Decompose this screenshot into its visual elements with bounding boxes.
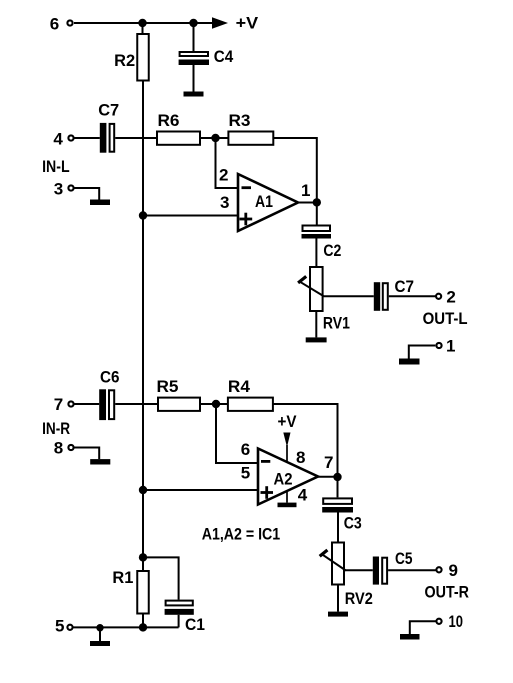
wire C5 to pin9 — [388, 569, 436, 571]
svg-text:OUT-R: OUT-R — [425, 583, 470, 602]
capacitor C6 — [99, 368, 119, 420]
+V supply arrow A2 pin 8 — [278, 412, 298, 462]
wire pin3 to ground — [75, 188, 100, 200]
capacitor C1 — [165, 601, 205, 634]
wire C1 to bottom row — [178, 615, 180, 628]
svg-text:C3: C3 — [344, 514, 362, 533]
svg-text:IN-L: IN-L — [42, 157, 70, 176]
pin 4 ground stub A2 — [286, 492, 288, 503]
svg-text:OUT-L: OUT-L — [423, 309, 468, 328]
svg-text:C6: C6 — [100, 368, 120, 387]
svg-text:2: 2 — [219, 166, 228, 185]
svg-text:A1,A2 = IC1: A1,A2 = IC1 — [202, 525, 281, 544]
wire R1 to bottom row — [142, 614, 144, 628]
svg-text:1: 1 — [301, 181, 310, 200]
wire C4 to ground — [193, 65, 195, 92]
wire pin4 to C7 — [75, 137, 100, 139]
ground pin8 — [90, 459, 110, 464]
svg-text:2: 2 — [446, 288, 455, 307]
wire A1 output — [298, 202, 317, 204]
ground pin1 — [399, 359, 420, 365]
node junction rail-R2 — [138, 19, 146, 27]
pin 1 terminal — [436, 337, 455, 356]
node junction bus-A2 noninverting — [139, 486, 147, 494]
node junction bus-A1 noninverting — [139, 211, 147, 219]
wire bias node to C1 — [143, 557, 179, 599]
svg-text:R2: R2 — [114, 51, 135, 70]
wire pin10 to ground — [410, 621, 436, 634]
capacitor C7 output — [374, 277, 414, 311]
svg-text:IN-R: IN-R — [42, 419, 70, 438]
op-amp A2 — [258, 449, 318, 505]
resistor R5 — [157, 377, 201, 411]
wire pin7 to C6 — [75, 403, 100, 405]
wire rail to R2 — [142, 23, 144, 34]
svg-text:9: 9 — [449, 561, 458, 580]
svg-text:8: 8 — [296, 448, 305, 467]
resistor R4 — [228, 377, 273, 411]
svg-text:6: 6 — [241, 440, 250, 459]
pin 4 terminal — [53, 129, 73, 148]
wire ground stub pin5 — [99, 628, 101, 641]
op-amp A1 — [238, 174, 298, 231]
svg-text:7: 7 — [324, 453, 333, 472]
svg-text:RV2: RV2 — [345, 589, 373, 608]
wire C2 to RV1 — [315, 239, 317, 268]
node junction R6-R3-pin2 — [211, 134, 219, 142]
capacitor C3 — [322, 498, 362, 532]
wire C7 to R6 — [115, 137, 157, 139]
svg-text:RV1: RV1 — [323, 314, 350, 333]
wire C7 to pin2 — [389, 295, 436, 297]
svg-text:6: 6 — [50, 14, 59, 33]
wire pin1 to ground — [409, 346, 436, 359]
pin 8 terminal — [54, 439, 74, 458]
node junction A2 output — [333, 473, 341, 481]
resistor R1 — [112, 568, 148, 614]
pin 2 terminal OUT-L — [436, 288, 456, 307]
wire R6 to R3 — [200, 137, 228, 139]
wire RV2 wiper to C5 — [344, 569, 373, 571]
wire R5 to R4 — [200, 403, 228, 405]
svg-text:R1: R1 — [112, 568, 133, 587]
svg-text:R3: R3 — [229, 111, 251, 130]
wire inverting input A2 — [216, 404, 258, 463]
svg-text:C7: C7 — [395, 277, 415, 296]
ground RV2 — [328, 612, 348, 617]
potentiometer RV1 — [298, 267, 350, 333]
pin 5 terminal — [55, 617, 73, 636]
svg-text:3: 3 — [220, 193, 229, 212]
ground A2 pin4 — [278, 503, 297, 508]
node junction rail-C4 — [189, 19, 197, 27]
wire bias bus R2 to R1 — [142, 81, 144, 572]
capacitor C4 — [179, 47, 234, 66]
wire bottom row — [74, 626, 179, 628]
capacitor C5 — [373, 549, 413, 585]
svg-text:C1: C1 — [185, 615, 205, 634]
node junction pin5 ground — [96, 624, 103, 631]
node junction R1 bottom — [139, 623, 147, 631]
svg-text:5: 5 — [55, 617, 64, 636]
svg-text:4: 4 — [53, 129, 63, 148]
svg-text:10: 10 — [449, 612, 464, 631]
svg-text:8: 8 — [54, 439, 63, 458]
svg-text:7: 7 — [54, 395, 63, 414]
resistor R2 — [114, 34, 149, 81]
svg-text:C7: C7 — [98, 101, 119, 120]
ground pin3 — [90, 200, 110, 206]
resistor R6 — [157, 111, 200, 145]
pin 7 terminal — [54, 395, 74, 414]
svg-text:C4: C4 — [214, 47, 234, 66]
potentiometer RV2 — [320, 543, 373, 608]
pin 6 terminal — [50, 14, 73, 33]
svg-text:R4: R4 — [228, 377, 251, 396]
capacitor C2 — [302, 226, 342, 261]
wire rail to C4 — [193, 23, 195, 52]
wire RV1 to ground — [315, 311, 317, 337]
wire RV1 wiper to C7 output — [323, 295, 374, 297]
node junction bus-R1-C1 — [139, 553, 147, 561]
svg-text:4: 4 — [298, 486, 308, 505]
svg-text:1: 1 — [446, 337, 455, 356]
node junction A1 output — [313, 198, 321, 206]
wire A2 output — [318, 476, 338, 478]
wire pin8 to ground — [75, 448, 100, 460]
svg-text:R5: R5 — [157, 377, 179, 396]
wire inverting input A1 — [216, 138, 239, 188]
capacitor C7 input — [98, 101, 119, 153]
ground C4 — [184, 92, 204, 97]
wire noninverting input A1 — [143, 215, 238, 217]
svg-text:A2: A2 — [274, 469, 293, 488]
wire R3 to A1 output node — [273, 138, 317, 225]
svg-text:3: 3 — [54, 180, 63, 199]
svg-text:C5: C5 — [395, 549, 413, 568]
pin 9 terminal OUT-R — [436, 561, 458, 580]
wire C3 to RV2 — [337, 513, 339, 543]
wire RV2 to ground — [337, 585, 339, 612]
node junction R5-R4-pin6 — [212, 400, 220, 408]
svg-text:+V: +V — [236, 14, 259, 33]
svg-text:5: 5 — [241, 464, 250, 483]
wire C6 to R5 — [115, 403, 158, 405]
wire pin6 to +V rail — [74, 22, 214, 24]
svg-text:C2: C2 — [323, 241, 341, 260]
resistor R3 — [228, 111, 273, 145]
ground RV1 — [306, 337, 327, 342]
+V supply arrow — [212, 14, 259, 33]
pin 3 terminal — [54, 180, 74, 199]
wire R4 to A2 output node — [273, 404, 338, 497]
svg-text:A1: A1 — [255, 192, 273, 211]
pin 10 terminal — [436, 612, 463, 631]
ground pin10 — [400, 634, 420, 640]
svg-text:+V: +V — [278, 412, 298, 431]
ground pin5 — [90, 641, 110, 646]
svg-text:R6: R6 — [158, 111, 180, 130]
wire noninverting input A2 — [143, 489, 258, 491]
